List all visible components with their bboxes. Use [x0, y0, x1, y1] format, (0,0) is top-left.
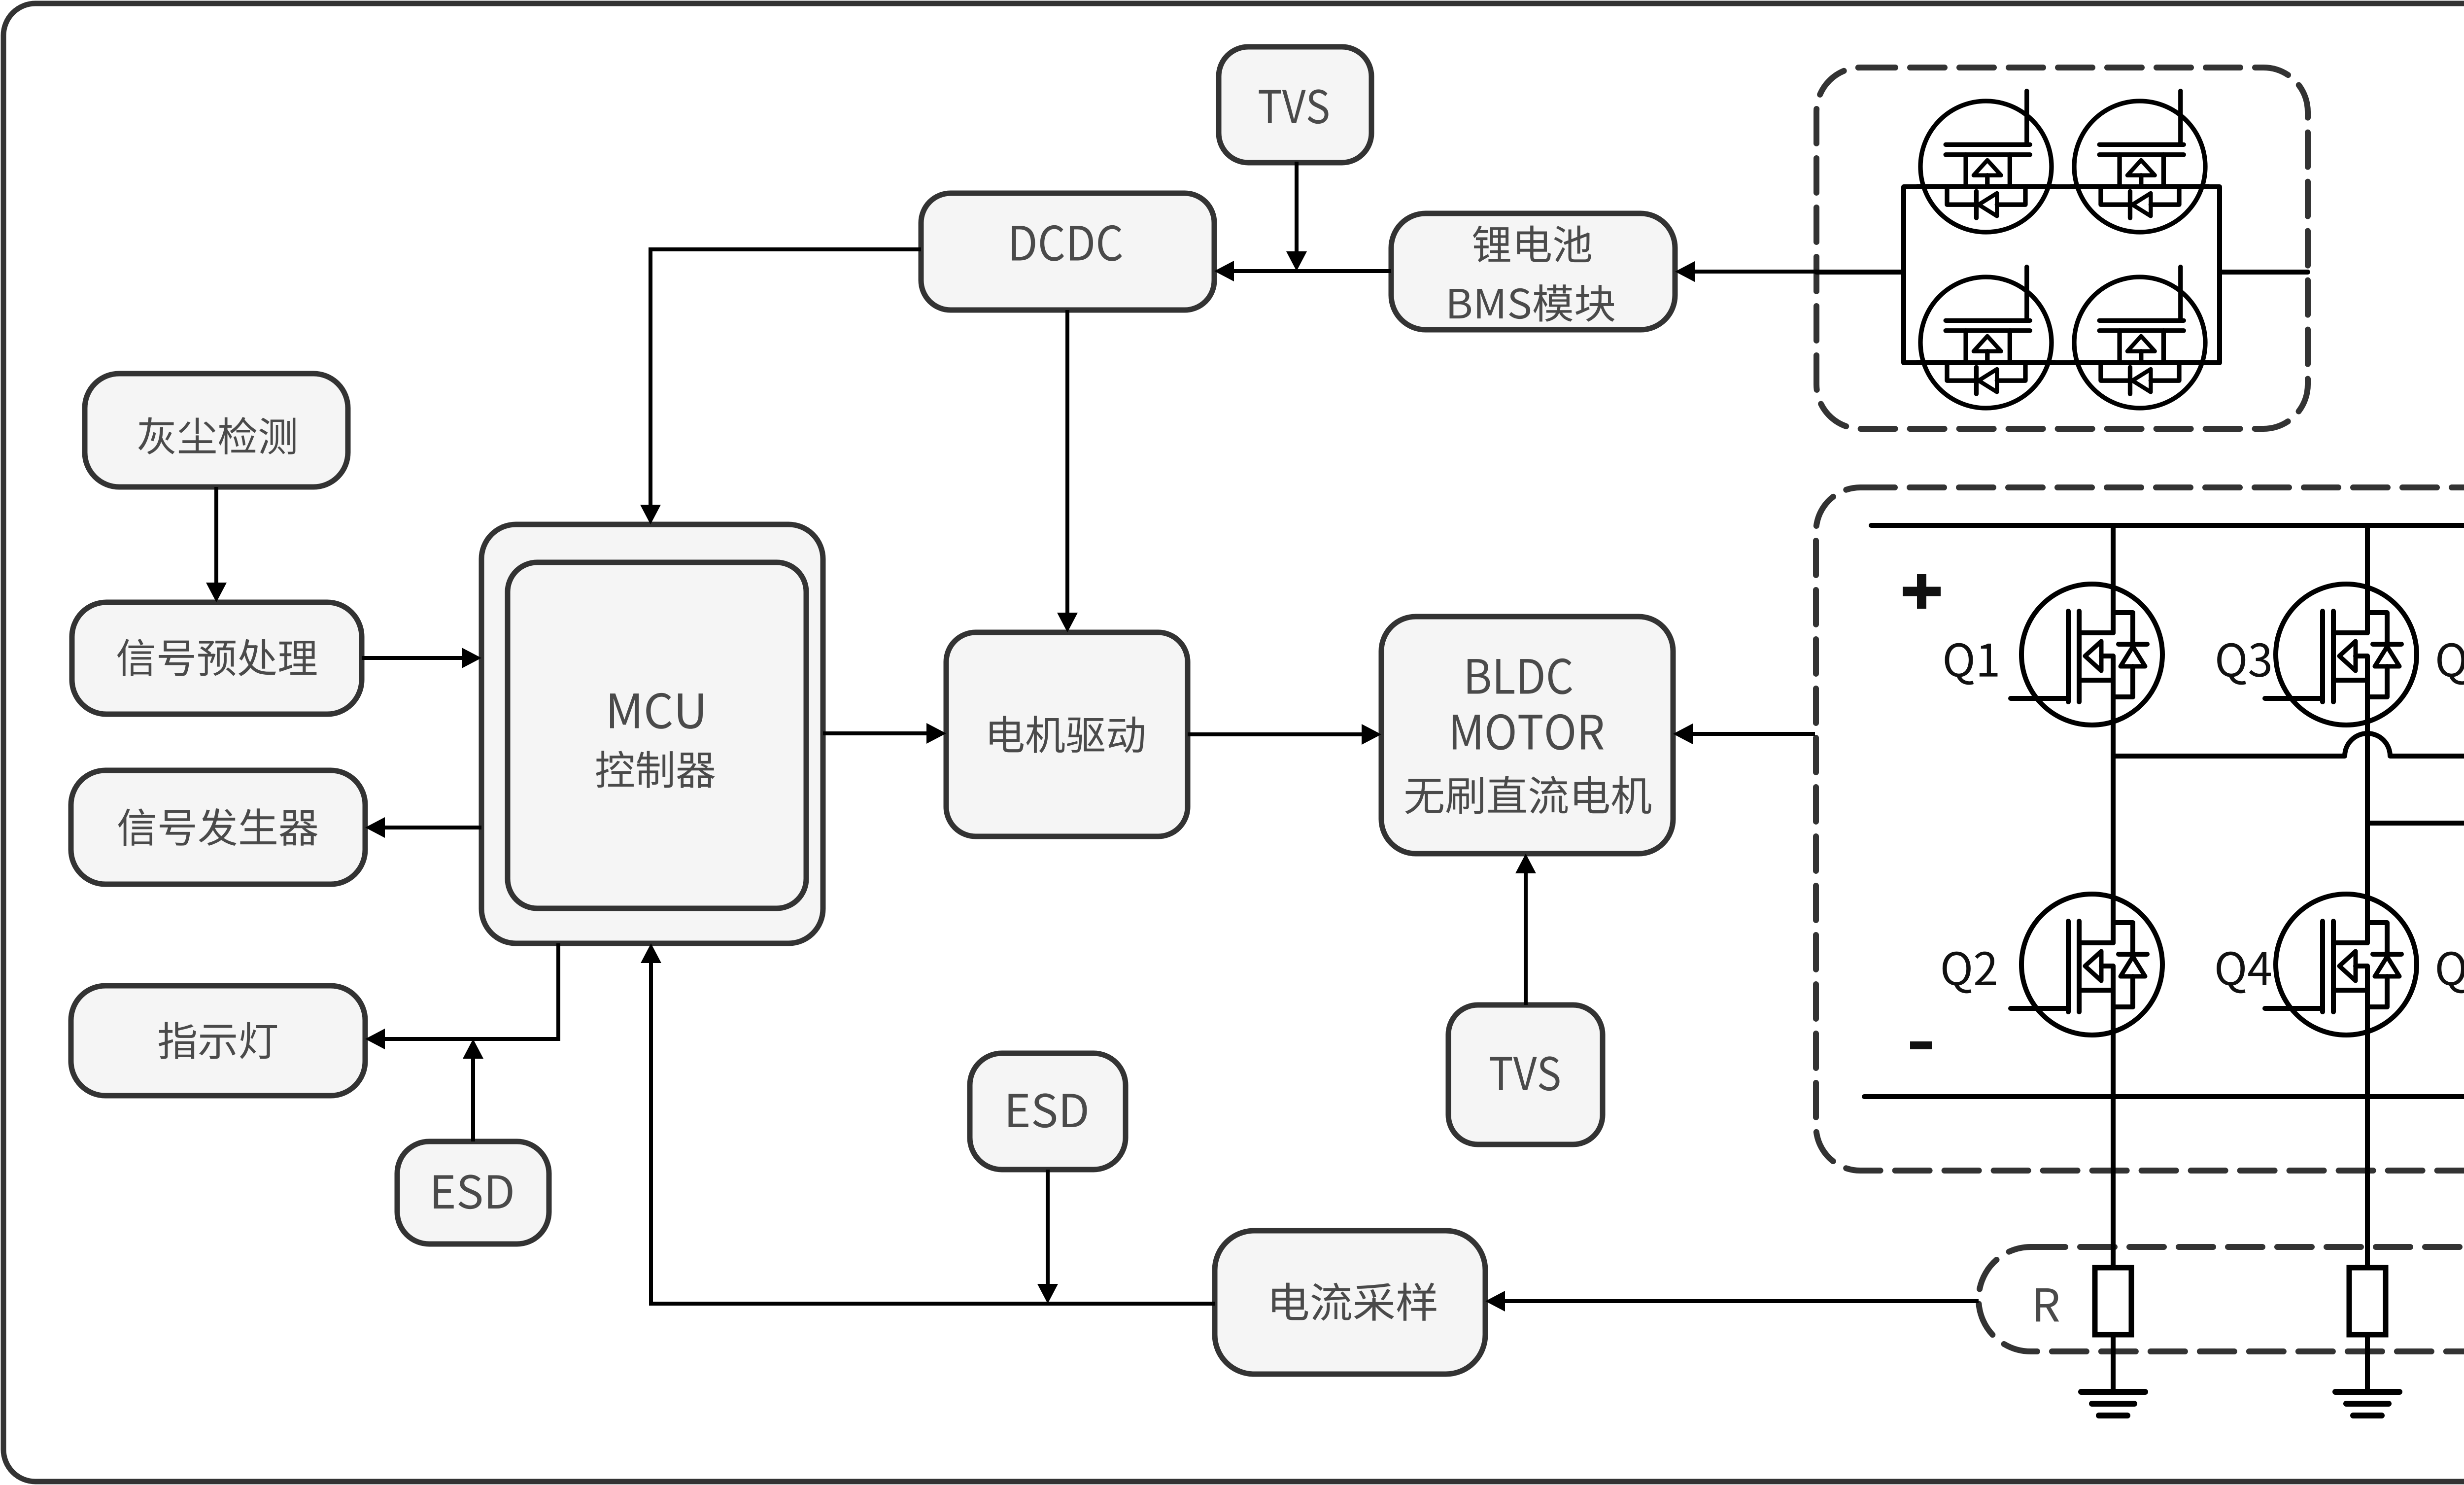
label e1 — [434, 1174, 513, 1209]
wire BMS to DCDC — [1234, 269, 1391, 273]
resistor shunt x=4288 — [2095, 1268, 2131, 1335]
wire DCDC to MCU — [650, 249, 921, 506]
box MCU outer — [481, 524, 823, 943]
label Q5 — [2437, 643, 2464, 685]
wire MCU to LED — [384, 943, 558, 1039]
transistor Q4 — [2265, 891, 2417, 1038]
label MCU — [610, 693, 703, 729]
ground x=4288 — [2111, 1335, 2116, 1392]
wire ESD1 up — [471, 1058, 475, 1141]
wire TVS1 down — [1295, 162, 1299, 252]
wire battery mid left — [1816, 270, 1904, 275]
battery MOSFET 1 — [1917, 91, 2055, 232]
box TVS bottom — [1448, 1005, 1603, 1144]
box TVS top — [1219, 47, 1371, 163]
wire MCU to signal-generator — [384, 826, 481, 829]
box motor-drive — [946, 632, 1188, 836]
dashed box battery pack — [1816, 68, 2308, 429]
box indicator-LED — [71, 986, 365, 1096]
box dust-detect — [85, 374, 348, 487]
label 无刷直流电机 — [1405, 776, 1651, 814]
wire preprocess to MCU — [362, 656, 463, 660]
label DCDC — [1012, 225, 1122, 261]
transistor Q2 — [2011, 891, 2162, 1038]
phase B wire with hop — [2367, 800, 2464, 823]
label 控制器 — [596, 751, 715, 788]
wire battery mid right — [2220, 270, 2308, 275]
inverter + bus — [1871, 523, 2464, 528]
box BMS — [1391, 213, 1675, 330]
label 信号发生器 — [118, 808, 318, 846]
box signal-preprocess — [72, 602, 362, 714]
label Q4 — [2217, 952, 2271, 994]
label MOTOR — [1453, 714, 1604, 750]
dashed box sense resistors R — [1979, 1247, 2464, 1351]
ground x=4804 — [2365, 1335, 2370, 1392]
dashed box inverter — [1816, 487, 2464, 1171]
resistor shunt x=4804 — [2349, 1268, 2386, 1335]
wire motor-drive to BLDC — [1188, 732, 1363, 736]
box BLDC motor — [1381, 617, 1673, 854]
label Q1 — [1945, 643, 1998, 685]
wire MCU to motor-drive — [823, 731, 927, 735]
wire inverter to BLDC — [1692, 732, 1815, 736]
battery MOSFET 3 — [1917, 267, 2055, 408]
transistor Q3 — [2265, 581, 2417, 728]
box signal-generator — [71, 770, 365, 884]
wire battery to BMS — [1695, 270, 1816, 274]
label t1 — [1259, 89, 1329, 124]
inverter column x=4288 — [2111, 525, 2116, 1268]
label 指示灯 — [159, 1022, 277, 1059]
inverter column x=4804 — [2365, 525, 2370, 1268]
label 信号预处理 — [117, 639, 317, 676]
transistor Q1 — [2011, 581, 2162, 728]
label R — [2036, 1288, 2059, 1321]
box MCU inner — [508, 562, 806, 908]
plus sign — [1903, 574, 1941, 609]
wire DCDC to motor-drive — [1065, 310, 1069, 614]
phase A wire with hops — [2113, 733, 2464, 756]
label BLDC — [1468, 658, 1572, 694]
wire R to current-sample — [1504, 1299, 1979, 1303]
box ESD left — [397, 1141, 549, 1244]
box current-sample — [1215, 1231, 1485, 1374]
minus sign — [1910, 1041, 1932, 1049]
label 灰尘检测 — [138, 417, 296, 454]
label BMS模块 — [1449, 284, 1614, 322]
label t2 — [1490, 1056, 1560, 1091]
label e2 — [1009, 1093, 1087, 1128]
label Q2 — [1943, 952, 1996, 994]
label 电流采样 — [1272, 1282, 1436, 1320]
wire TVS2 to BLDC — [1524, 872, 1528, 1005]
wire dust to preprocess — [214, 487, 218, 584]
label 锂电池 — [1473, 226, 1591, 263]
wire ESD2 down — [1046, 1170, 1050, 1285]
box ESD mid — [970, 1053, 1126, 1170]
battery MOSFET 4 — [2071, 267, 2209, 408]
box DCDC — [921, 193, 1214, 310]
label Q6 — [2437, 952, 2464, 994]
battery MOSFET 2 — [2071, 91, 2209, 232]
wire current-sample to MCU — [651, 962, 1215, 1304]
inverter - bus — [1864, 1094, 2464, 1099]
label Q3 — [2217, 643, 2270, 685]
battery bridge rectangle — [1904, 187, 2220, 363]
label 电机驱动 — [990, 716, 1144, 753]
